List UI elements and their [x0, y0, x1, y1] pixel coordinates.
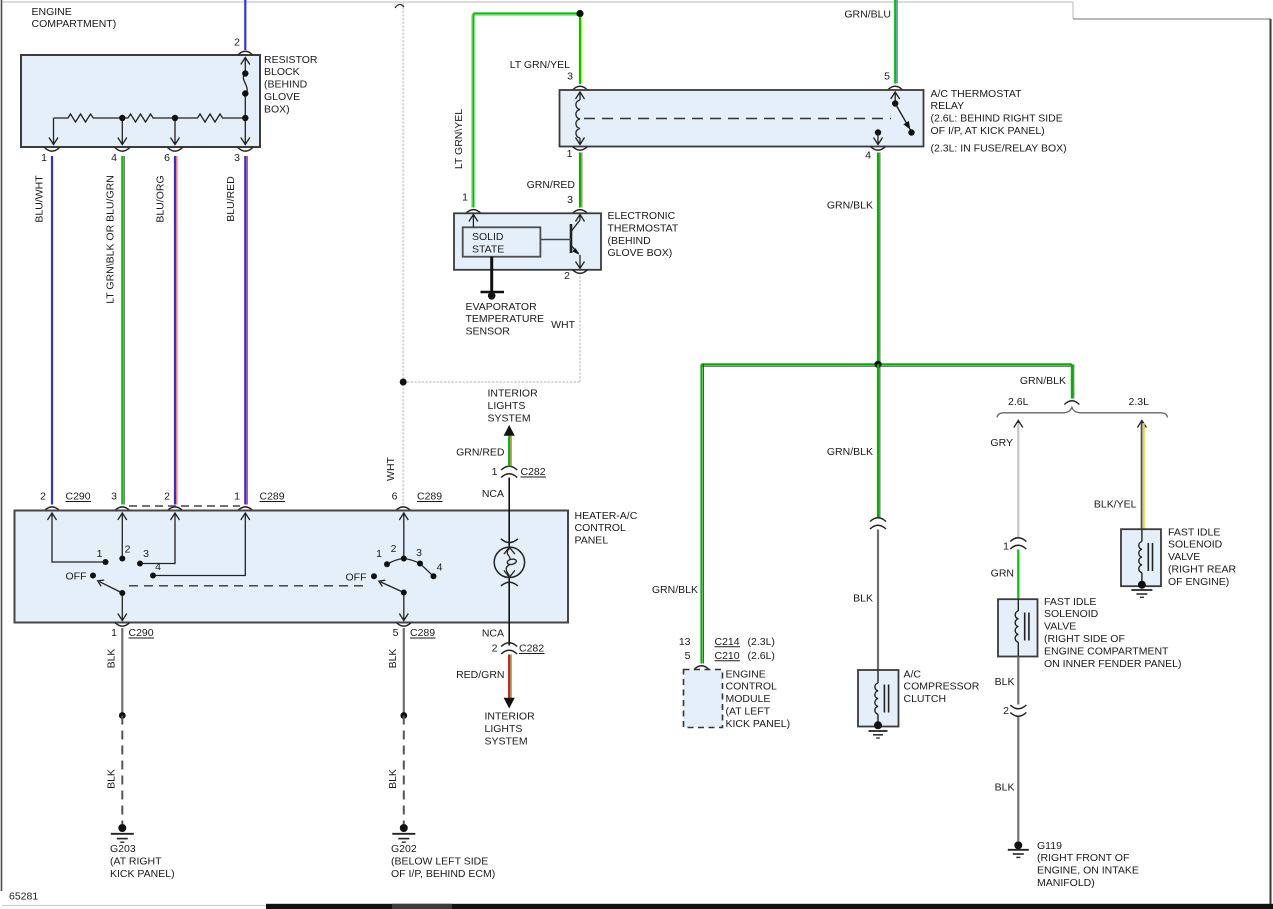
svg-text:C289: C289 — [410, 627, 435, 639]
right switch output wire — [399, 593, 408, 621]
svg-text:G203: G203 — [110, 843, 136, 855]
solenoid 2.6L coil — [1015, 599, 1029, 656]
svg-text:GRN/BLU: GRN/BLU — [844, 9, 891, 21]
svg-text:EVAPORATOR: EVAPORATOR — [466, 301, 538, 313]
wire BLK from pin1 C290 — [121, 628, 123, 716]
svg-text:(AT LEFT: (AT LEFT — [726, 706, 771, 718]
svg-text:LT GRN\BLK OR BLU/GRN: LT GRN\BLK OR BLU/GRN — [105, 175, 117, 304]
svg-text:4: 4 — [437, 562, 443, 574]
wire WHT horizontal — [403, 381, 580, 383]
inline connector clutch — [870, 518, 886, 529]
svg-text:G202: G202 — [391, 843, 417, 855]
svg-text:WHT: WHT — [551, 319, 575, 331]
transistor Q1 — [540, 215, 584, 269]
thermostat label — [608, 210, 679, 259]
underline C290 — [66, 501, 92, 503]
relay label — [931, 88, 1067, 155]
ground G203 label — [110, 843, 175, 880]
svg-text:PANEL: PANEL — [575, 535, 609, 547]
svg-text:C214: C214 — [715, 636, 740, 648]
connector bump above brace — [1064, 401, 1079, 405]
dashed connector C289 group line — [129, 505, 240, 507]
thermostat pin2 connector bump — [573, 270, 588, 274]
solenoid 2.3L ground symbol — [1131, 590, 1152, 597]
wire NCA below panel — [508, 622, 510, 646]
internal bus with three zigzag resistors — [54, 114, 246, 122]
arrow to interior lights system top — [504, 425, 515, 436]
fast idle solenoid valve 2.3L box — [1121, 529, 1161, 586]
bottom taskbar lighter segment — [392, 904, 452, 909]
heater panel label — [575, 510, 638, 547]
junction dot GRN/BLK — [874, 361, 881, 368]
svg-text:5: 5 — [884, 71, 890, 83]
solid state label — [472, 231, 504, 255]
evaporator temperature sensor — [481, 257, 505, 300]
right switch position arc — [387, 559, 434, 577]
split brace 2.6L/2.3L — [997, 407, 1168, 417]
svg-text:3: 3 — [567, 71, 573, 83]
svg-text:BLK: BLK — [387, 769, 399, 789]
clutch ground symbol — [869, 731, 888, 738]
heater A/C control panel box — [15, 511, 569, 623]
svg-text:1: 1 — [97, 548, 103, 560]
svg-text:ENGINE COMPARTMENT: ENGINE COMPARTMENT — [1044, 645, 1169, 657]
svg-text:3: 3 — [567, 194, 573, 206]
fast idle solenoid valve 2.6L box — [998, 599, 1038, 656]
relay internal dashed line — [584, 118, 891, 120]
svg-text:1: 1 — [234, 491, 240, 503]
underline C210 — [715, 660, 741, 662]
svg-text:OF ENGINE): OF ENGINE) — [1168, 576, 1229, 588]
solenoid 2.3L ground dot — [1138, 581, 1146, 589]
svg-text:2.6L: 2.6L — [1008, 396, 1029, 408]
2.3L branch arrow — [1137, 421, 1146, 428]
underline C289 — [260, 501, 286, 503]
svg-text:(2.6L: BEHIND RIGHT SIDE: (2.6L: BEHIND RIGHT SIDE — [931, 113, 1063, 125]
svg-text:3: 3 — [234, 152, 240, 164]
ECM connector bump — [694, 666, 709, 670]
svg-text:SOLID: SOLID — [472, 231, 504, 243]
svg-text:OFF: OFF — [346, 572, 367, 584]
svg-text:TEMPERATURE: TEMPERATURE — [466, 313, 545, 325]
thermostat pin1 internal arrow — [469, 215, 478, 228]
svg-text:GRN/BLK: GRN/BLK — [827, 199, 873, 211]
svg-text:BLU/RED: BLU/RED — [225, 176, 237, 222]
ganged switch dashed link — [129, 585, 368, 587]
ground G119 — [1008, 841, 1029, 857]
junction dot G202 wire — [400, 712, 407, 719]
ground G203 — [111, 824, 134, 842]
svg-text:STATE: STATE — [472, 243, 504, 255]
underline C282 bottom — [519, 653, 545, 655]
wire GRN/BLK right top corner — [1072, 364, 1074, 398]
wire WHT vertical from top border — [402, 3, 404, 505]
dashed BLK wire to G202 — [403, 716, 405, 825]
svg-text:BLK/YEL: BLK/YEL — [1094, 498, 1137, 510]
svg-text:(RIGHT SIDE OF: (RIGHT SIDE OF — [1044, 633, 1125, 645]
squiggle resistor element — [243, 74, 247, 119]
wire GRN/BLK horizontal bus — [702, 364, 1072, 366]
svg-text:BLOCK: BLOCK — [264, 66, 300, 78]
resistor block R1 box — [21, 55, 260, 147]
svg-text:(AT RIGHT: (AT RIGHT — [110, 855, 162, 867]
svg-text:INTERIOR: INTERIOR — [488, 388, 539, 400]
svg-text:1: 1 — [462, 191, 468, 203]
svg-text:6: 6 — [392, 491, 398, 503]
ECM pin labels — [679, 636, 775, 662]
resistor block bottom pin numbers — [41, 152, 240, 164]
wire BLK below solenoid — [1017, 657, 1019, 705]
solenoid 2.3L label — [1168, 526, 1236, 588]
connector C282 pin1 labels — [492, 466, 546, 478]
svg-text:RELAY: RELAY — [931, 100, 965, 112]
connector C282 pin2 — [501, 643, 517, 654]
svg-text:(2.3L: IN FUSE/RELAY BOX): (2.3L: IN FUSE/RELAY BOX) — [931, 143, 1067, 155]
svg-text:ENGINE, ON INTAKE: ENGINE, ON INTAKE — [1037, 865, 1139, 877]
panel top connector bumps — [45, 507, 411, 511]
wire GRN — [1017, 550, 1019, 600]
svg-text:BLK: BLK — [106, 769, 118, 789]
svg-text:NCA: NCA — [482, 627, 504, 639]
svg-text:KICK PANEL): KICK PANEL) — [110, 868, 175, 880]
svg-text:VALVE: VALVE — [1044, 621, 1076, 633]
svg-text:2: 2 — [234, 37, 240, 49]
wire WHT vertical to thermostat pin2 — [579, 276, 581, 382]
underline C289 bottom — [410, 637, 436, 639]
svg-text:5: 5 — [393, 627, 399, 639]
right switch position labels — [376, 543, 443, 574]
svg-text:1: 1 — [111, 627, 117, 639]
junction dot LT GRN/YEL — [576, 10, 583, 17]
svg-text:A/C THERMOSTAT: A/C THERMOSTAT — [931, 88, 1023, 100]
svg-text:G119: G119 — [1037, 840, 1062, 852]
dashed BLK wire to G203 — [121, 716, 123, 825]
thermostat pin1 connector bump — [466, 210, 481, 214]
bottom taskbar black — [266, 904, 1273, 909]
svg-text:1: 1 — [1003, 541, 1009, 553]
right switch wiper arm — [379, 580, 404, 592]
wire BLK from pin5 C289 — [403, 628, 405, 716]
underline C290 bottom — [129, 637, 155, 639]
svg-text:OF I/P, BEHIND ECM): OF I/P, BEHIND ECM) — [391, 868, 495, 880]
svg-text:2: 2 — [1003, 705, 1009, 717]
left switch contact dots — [90, 556, 156, 597]
wire BLK to clutch — [877, 530, 879, 671]
interior lights system label bottom — [485, 711, 536, 748]
svg-text:C282: C282 — [521, 466, 546, 478]
svg-text:C282: C282 — [519, 643, 544, 655]
wire LT GRN/BLK pin4 — [122, 156, 124, 505]
svg-text:CONTROL: CONTROL — [726, 681, 777, 693]
left switch wiper arm — [98, 580, 123, 593]
page border top-right notch vertical — [1072, 2, 1074, 19]
wire BLK to G119 — [1017, 717, 1019, 841]
svg-text:3: 3 — [416, 547, 422, 559]
svg-text:5: 5 — [685, 650, 691, 662]
svg-text:ENGINE: ENGINE — [32, 6, 72, 18]
A/C compressor clutch box — [858, 670, 899, 727]
svg-text:C290: C290 — [66, 491, 91, 503]
ground G119 label — [1037, 840, 1139, 889]
wire LT GRN/YEL vertical left — [472, 14, 474, 208]
right switch contact dots — [371, 556, 437, 596]
svg-text:CLUTCH: CLUTCH — [904, 693, 947, 705]
wire NCA above panel — [508, 478, 510, 512]
panel lamp wire NCA vertical — [508, 511, 510, 622]
svg-text:4: 4 — [865, 150, 871, 162]
svg-text:(BEHIND: (BEHIND — [264, 79, 308, 91]
svg-text:RED/GRN: RED/GRN — [456, 669, 504, 681]
solid state box — [463, 227, 541, 256]
svg-text:A/C: A/C — [904, 668, 922, 680]
wire GRN/BLK from relay pin4 — [878, 153, 880, 365]
bottom pin bumps of resistor block — [45, 148, 253, 152]
relay switch contact — [874, 92, 915, 145]
svg-text:C289: C289 — [260, 491, 285, 503]
svg-text:6: 6 — [164, 152, 170, 164]
relay pin4 connector bump — [871, 147, 886, 151]
svg-text:GRN/BLK: GRN/BLK — [652, 584, 698, 596]
svg-text:HEATER-A/C: HEATER-A/C — [575, 510, 638, 522]
panel illumination lamp — [494, 539, 524, 586]
inline connector 1 — [1010, 538, 1026, 549]
svg-text:FAST IDLE: FAST IDLE — [1168, 526, 1220, 538]
relay pin5 connector bump — [888, 86, 903, 90]
svg-text:1: 1 — [376, 548, 382, 560]
connector C282 pin1 — [501, 466, 517, 477]
svg-text:2: 2 — [391, 543, 397, 555]
page border right — [1270, 19, 1272, 906]
svg-text:LIGHTS: LIGHTS — [488, 400, 526, 412]
svg-text:4: 4 — [111, 152, 117, 164]
page border top-right notch horizontal — [1073, 18, 1271, 20]
svg-text:ELECTRONIC: ELECTRONIC — [608, 210, 676, 222]
underline C214 — [715, 646, 741, 648]
svg-text:VALVE: VALVE — [1168, 551, 1200, 563]
electronic thermostat box — [454, 213, 601, 269]
wire BLU to resistor block pin 2 — [244, 0, 246, 50]
svg-text:(2.3L): (2.3L) — [748, 636, 775, 648]
resistor block internal wires — [49, 58, 250, 145]
left switch position labels — [97, 543, 162, 573]
drop wires with down arrows — [49, 118, 58, 145]
right switch wiring — [379, 513, 434, 621]
svg-text:C289: C289 — [417, 491, 442, 503]
svg-text:RESISTOR: RESISTOR — [264, 54, 318, 66]
wire GRN/RED relay pin1 to thermostat pin3 — [580, 153, 582, 208]
svg-text:2: 2 — [40, 491, 46, 503]
svg-text:C210: C210 — [715, 650, 740, 662]
solenoid 2.6L label — [1044, 596, 1182, 670]
svg-text:BLK: BLK — [106, 649, 118, 669]
resistor block label — [264, 54, 318, 116]
svg-text:2: 2 — [564, 270, 570, 282]
inline connector 2 — [1010, 705, 1026, 716]
ground G202 label — [391, 843, 495, 880]
panel bottom pin labels — [111, 627, 435, 639]
svg-text:SYSTEM: SYSTEM — [485, 736, 528, 748]
svg-text:SOLENOID: SOLENOID — [1044, 608, 1099, 620]
svg-text:GRN: GRN — [991, 567, 1014, 579]
wire GRN/RED to interior lights — [509, 435, 511, 467]
svg-text:GRN/RED: GRN/RED — [527, 179, 576, 191]
svg-text:LT GRN\YEL: LT GRN\YEL — [453, 109, 465, 169]
arrow to interior lights system bottom — [504, 698, 515, 709]
clutch ground dot — [874, 721, 882, 729]
wire BLU/WHT pin1 — [51, 156, 53, 505]
relay pin1 connector bump — [573, 147, 588, 151]
svg-text:ON INNER FENDER PANEL): ON INNER FENDER PANEL) — [1044, 658, 1182, 670]
evaporator sensor label — [466, 301, 545, 338]
engine control module box — [684, 670, 723, 728]
relay pin3 connector bump — [573, 86, 588, 90]
interior lights system label top — [488, 388, 539, 425]
svg-text:MANIFOLD): MANIFOLD) — [1037, 877, 1095, 889]
WHT top cut connector bump — [395, 4, 404, 8]
panel top pin labels — [40, 491, 442, 503]
svg-text:BLK: BLK — [853, 592, 873, 604]
ground G202 — [392, 824, 415, 842]
svg-text:(RIGHT REAR: (RIGHT REAR — [1168, 564, 1236, 576]
svg-text:MODULE: MODULE — [726, 693, 771, 705]
wire LT GRN/YEL vertical right to relay pin3 — [580, 14, 582, 85]
wire BLK/YEL — [1142, 423, 1144, 529]
svg-text:NCA: NCA — [482, 488, 504, 500]
svg-text:COMPRESSOR: COMPRESSOR — [904, 681, 980, 693]
svg-text:LT GRN/YEL: LT GRN/YEL — [510, 59, 570, 71]
wire GRN/BLK to ECM — [702, 364, 704, 663]
svg-text:COMPARTMENT): COMPARTMENT) — [32, 18, 117, 30]
clutch label — [904, 668, 980, 705]
svg-text:(RIGHT FRONT OF: (RIGHT FRONT OF — [1037, 852, 1129, 864]
underline C289 pin6 — [417, 501, 443, 503]
wire LT GRN/YEL horizontal top — [473, 14, 580, 16]
junction dot WHT — [400, 379, 407, 386]
underline C282 top — [521, 476, 547, 478]
clutch coil — [875, 670, 889, 725]
svg-text:1: 1 — [41, 152, 47, 164]
svg-text:GLOVE BOX): GLOVE BOX) — [608, 247, 673, 259]
svg-text:BLK: BLK — [995, 782, 1015, 794]
thermostat pin3 connector bump — [573, 210, 588, 214]
page border left — [1, 0, 3, 891]
pin2 lead with arrow — [241, 58, 250, 74]
svg-text:13: 13 — [679, 636, 691, 648]
junction dots in resistor block — [119, 70, 248, 121]
svg-text:2.3L: 2.3L — [1129, 396, 1150, 408]
svg-text:2: 2 — [125, 543, 131, 555]
junction dot G203 wire — [119, 712, 126, 719]
2.6L branch arrow — [1014, 421, 1023, 428]
svg-text:CONTROL: CONTROL — [575, 522, 626, 534]
svg-text:3: 3 — [111, 491, 117, 503]
svg-text:(BELOW LEFT SIDE: (BELOW LEFT SIDE — [391, 855, 488, 867]
svg-text:1: 1 — [567, 148, 573, 160]
svg-text:GLOVE: GLOVE — [264, 91, 300, 103]
svg-text:FAST IDLE: FAST IDLE — [1044, 596, 1096, 608]
svg-text:ENGINE: ENGINE — [726, 668, 766, 680]
svg-text:GRN/BLK: GRN/BLK — [827, 446, 873, 458]
svg-text:1: 1 — [492, 466, 498, 478]
svg-text:65281: 65281 — [9, 891, 38, 903]
svg-text:C290: C290 — [129, 627, 154, 639]
svg-text:BLK: BLK — [387, 649, 399, 669]
svg-text:GRN/BLK: GRN/BLK — [1020, 375, 1066, 387]
pin 2 connector bump — [238, 51, 253, 55]
relay coil — [576, 92, 585, 145]
svg-text:3: 3 — [143, 548, 149, 560]
svg-text:SOLENOID: SOLENOID — [1168, 539, 1223, 551]
wire GRY — [1017, 423, 1019, 539]
svg-text:OF I/P, AT KICK PANEL): OF I/P, AT KICK PANEL) — [931, 125, 1045, 137]
svg-text:SENSOR: SENSOR — [466, 326, 511, 338]
svg-text:BLU/WHT: BLU/WHT — [34, 175, 46, 223]
svg-text:SYSTEM: SYSTEM — [488, 413, 531, 425]
wire BLU/ORG pin6 — [175, 156, 177, 505]
svg-text:BLU/ORG: BLU/ORG — [155, 175, 167, 222]
svg-text:THERMOSTAT: THERMOSTAT — [608, 222, 679, 234]
solenoid 2.3L coil — [1139, 529, 1153, 584]
svg-text:2: 2 — [492, 643, 498, 655]
svg-text:LIGHTS: LIGHTS — [485, 723, 523, 735]
svg-text:INTERIOR: INTERIOR — [485, 711, 536, 723]
svg-text:BLK: BLK — [995, 676, 1015, 688]
wire GRN/BLU to relay pin5 — [895, 0, 897, 84]
ECM label — [726, 668, 791, 730]
A/C thermostat relay box — [560, 90, 924, 147]
svg-text:WHT: WHT — [385, 456, 397, 480]
svg-text:4: 4 — [155, 561, 161, 573]
panel bottom pin bumps — [115, 623, 412, 627]
wire RED/GRN to interior lights — [509, 655, 511, 699]
svg-text:2: 2 — [164, 491, 170, 503]
svg-text:OFF: OFF — [66, 571, 87, 583]
svg-text:GRN/RED: GRN/RED — [456, 446, 505, 458]
svg-text:GRY: GRY — [990, 437, 1013, 449]
svg-text:BOX): BOX) — [264, 103, 290, 115]
connector C282 pin2 labels — [492, 643, 545, 655]
svg-text:(2.6L): (2.6L) — [748, 650, 775, 662]
left switch wiring — [48, 513, 250, 621]
svg-text:(BEHIND: (BEHIND — [608, 235, 652, 247]
wire GRN/BLK to compressor clutch — [878, 364, 880, 518]
page border bottom — [2, 905, 280, 907]
svg-text:KICK PANEL): KICK PANEL) — [726, 718, 791, 730]
left switch output wire — [118, 593, 127, 621]
page border top — [2, 1, 1073, 3]
wire BLU/RED pin3 — [245, 156, 247, 505]
